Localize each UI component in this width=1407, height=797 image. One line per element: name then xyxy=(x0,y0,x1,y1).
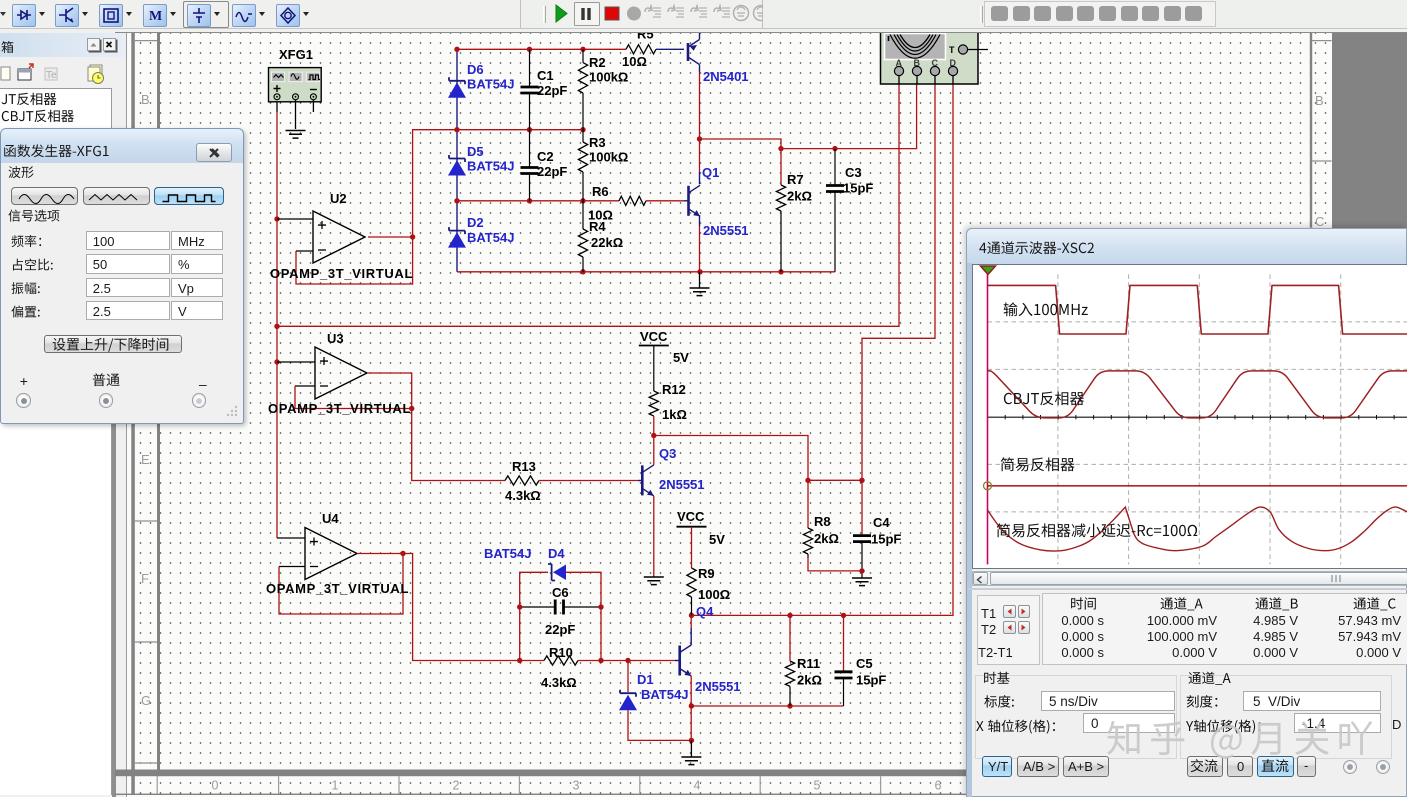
svg-text:OPAMP_3T_VIRTUAL: OPAMP_3T_VIRTUAL xyxy=(270,266,413,281)
svg-text:0: 0 xyxy=(212,779,219,793)
power VCC 5V (mid) xyxy=(677,526,707,528)
svg-text:10Ω: 10Ω xyxy=(622,54,647,69)
svg-text:5V: 5V xyxy=(673,350,689,365)
resistor R2 100k xyxy=(582,49,584,62)
diode D6 BAT54J xyxy=(449,77,465,84)
resistor R9 100 xyxy=(691,527,693,568)
wire: R10 vertical links xyxy=(519,607,521,661)
svg-text:U3: U3 xyxy=(327,331,344,346)
svg-text:R5: R5 xyxy=(637,27,654,42)
power VCC 5V (top) xyxy=(639,345,669,347)
resistor R7 2k xyxy=(780,149,782,185)
svg-text:XFG1: XFG1 xyxy=(279,47,313,62)
transistor Q4 2N5551 xyxy=(678,646,681,676)
wire: Q4 emitter node to R11/C5 bottom xyxy=(691,705,843,707)
svg-text:D: D xyxy=(950,58,957,68)
svg-text:R13: R13 xyxy=(512,459,536,474)
svg-text:15pF: 15pF xyxy=(843,181,873,196)
node: Q3 collector xyxy=(651,433,656,438)
wire: row3 bottom net xyxy=(457,271,835,273)
svg-text:4.3kΩ: 4.3kΩ xyxy=(541,675,577,690)
node: collector net y615 xyxy=(689,613,694,618)
wire: row2 net to R6 xyxy=(457,200,619,202)
wire: XFG1 minus stub xyxy=(312,100,314,112)
svg-text:BAT54J: BAT54J xyxy=(484,546,531,561)
svg-text:100kΩ: 100kΩ xyxy=(589,150,628,165)
svg-text:15pF: 15pF xyxy=(856,673,886,688)
ground (Q4/D1) xyxy=(690,740,692,757)
svg-text:5V: 5V xyxy=(709,532,725,547)
wire: XFG1 common to ground xyxy=(295,100,297,129)
svg-text:R3: R3 xyxy=(589,135,606,150)
resistor R3 100k xyxy=(582,130,584,142)
capacitor C2 22pF xyxy=(529,130,531,168)
capacitor C5 15pF xyxy=(843,615,845,670)
wire: XFG1 plus output vertical net to opamp inputs xyxy=(276,100,278,112)
svg-text:2kΩ: 2kΩ xyxy=(814,531,839,546)
svg-text:R11: R11 xyxy=(797,656,820,671)
svg-text:BAT54J: BAT54J xyxy=(641,687,688,702)
svg-text:Q4: Q4 xyxy=(696,604,714,619)
resistor R4 22k xyxy=(582,201,584,229)
svg-text:2kΩ: 2kΩ xyxy=(787,189,812,204)
node: Q1 collector xyxy=(697,136,702,141)
svg-text:OPAMP_3T_VIRTUAL: OPAMP_3T_VIRTUAL xyxy=(266,581,409,596)
svg-text:3: 3 xyxy=(573,779,580,793)
svg-text:U4: U4 xyxy=(322,511,339,526)
capacitor C4 15pF xyxy=(861,480,863,534)
resistor R6 10 xyxy=(619,196,646,205)
svg-text:22pF: 22pF xyxy=(537,164,567,179)
diode D1 BAT54J xyxy=(627,661,629,693)
svg-text:C6: C6 xyxy=(552,585,569,600)
svg-text:R6: R6 xyxy=(592,184,609,199)
svg-text:BAT54J: BAT54J xyxy=(467,230,514,245)
svg-text:15pF: 15pF xyxy=(871,532,901,547)
transistor Q5 2N5401 PNP top xyxy=(687,43,690,61)
svg-text:22pF: 22pF xyxy=(537,83,567,98)
ground (Q1 emitter) xyxy=(699,272,701,288)
svg-text:C3: C3 xyxy=(845,165,862,180)
wire: channel C probe riser xyxy=(862,84,935,480)
svg-text:2N5401: 2N5401 xyxy=(703,69,749,84)
diode D5 BAT54J xyxy=(449,155,465,162)
wire: channel D probe riser xyxy=(692,84,954,615)
op-amp U4 OPAMP_3T_VIRTUAL xyxy=(305,528,357,580)
wire: top row0 net xyxy=(457,48,626,50)
svg-text:E: E xyxy=(141,452,150,467)
node: diode column junctions xyxy=(454,47,459,52)
function generator XFG1 icon xyxy=(269,68,322,102)
svg-text:B: B xyxy=(141,92,150,107)
node: U2 output junction xyxy=(410,234,415,239)
resistor R13 4.3k xyxy=(505,476,539,485)
svg-text:T: T xyxy=(949,45,955,55)
svg-text:B: B xyxy=(914,58,921,68)
sheet row letters xyxy=(141,92,1324,708)
sheet column numbers xyxy=(212,779,942,793)
wire: U2 feedback loop xyxy=(296,250,313,252)
capacitor C1 22pF xyxy=(529,49,531,87)
svg-text:22pF: 22pF xyxy=(545,622,575,637)
svg-text:VCC: VCC xyxy=(677,509,705,524)
sheet border bars xyxy=(131,33,135,796)
svg-text:C2: C2 xyxy=(537,149,554,164)
wire: channel A probe line xyxy=(277,84,899,326)
svg-text:R2: R2 xyxy=(589,55,606,70)
svg-text:C: C xyxy=(932,58,939,68)
wire: Q3 collector to R8 step xyxy=(654,436,862,481)
svg-text:2N5551: 2N5551 xyxy=(703,223,749,238)
svg-text:100Ω: 100Ω xyxy=(698,587,730,602)
resistor R12 1k xyxy=(653,346,655,392)
svg-text:BAT54J: BAT54J xyxy=(467,159,514,174)
svg-text:2N5551: 2N5551 xyxy=(659,477,705,492)
svg-text:1: 1 xyxy=(332,779,339,793)
svg-text:1kΩ: 1kΩ xyxy=(662,407,687,422)
svg-text:C5: C5 xyxy=(856,656,873,671)
svg-text:R7: R7 xyxy=(787,172,804,187)
svg-text:5: 5 xyxy=(814,779,821,793)
ground (C4) xyxy=(852,578,872,586)
svg-text:10Ω: 10Ω xyxy=(588,208,613,223)
svg-text:D1: D1 xyxy=(637,672,654,687)
svg-text:VCC: VCC xyxy=(640,329,668,344)
svg-text:C4: C4 xyxy=(873,515,890,530)
resistor R5 10 (top, clipped) xyxy=(626,45,656,54)
svg-text:A: A xyxy=(896,58,903,68)
svg-text:D5: D5 xyxy=(467,144,484,159)
ground (Q3 emitter) xyxy=(644,577,664,585)
svg-text:C1: C1 xyxy=(537,68,554,83)
transistor Q1 2N5551 xyxy=(687,186,690,216)
svg-text:D2: D2 xyxy=(467,215,484,230)
svg-text:R9: R9 xyxy=(698,566,715,581)
resistor R11 2k xyxy=(789,615,791,661)
capacitor C3 15pF xyxy=(834,149,836,185)
svg-text:B: B xyxy=(1315,93,1324,108)
svg-text:C: C xyxy=(1315,214,1324,229)
diode D2 BAT54J xyxy=(449,227,465,234)
svg-text:Q1: Q1 xyxy=(702,165,719,180)
svg-text:D6: D6 xyxy=(467,62,484,77)
svg-text:2kΩ: 2kΩ xyxy=(797,673,822,688)
svg-text:2N5551: 2N5551 xyxy=(695,679,741,694)
svg-text:R8: R8 xyxy=(814,514,831,529)
svg-text:BAT54J: BAT54J xyxy=(467,77,514,92)
svg-text:Q3: Q3 xyxy=(659,446,676,461)
diode D4 BAT54J horizontal xyxy=(520,572,548,607)
wire: U2 +input xyxy=(277,218,313,220)
capacitor C6 22pF horizontal xyxy=(520,606,555,608)
svg-text:2: 2 xyxy=(453,779,460,793)
svg-text:OPAMP_3T_VIRTUAL: OPAMP_3T_VIRTUAL xyxy=(268,401,411,416)
oscilloscope XSC2 icon xyxy=(881,30,979,84)
wire: diode chain column xyxy=(456,49,458,271)
wire: collector node to R7/C3 and channel B riser xyxy=(700,84,917,149)
svg-text:100kΩ: 100kΩ xyxy=(589,70,628,85)
svg-text:4: 4 xyxy=(694,779,701,793)
resistor R10 4.3k xyxy=(544,656,578,665)
node: A-line taps xyxy=(274,324,279,329)
svg-text:F: F xyxy=(141,571,149,586)
svg-text:D4: D4 xyxy=(548,546,565,561)
svg-text:22kΩ: 22kΩ xyxy=(591,235,623,250)
transistor Q3 2N5551 xyxy=(641,465,644,495)
wire: U2 output riser to diode row1 xyxy=(368,130,583,237)
op-amp U2 OPAMP_3T_VIRTUAL xyxy=(313,211,365,263)
svg-text:6: 6 xyxy=(935,779,942,793)
svg-text:R12: R12 xyxy=(662,382,686,397)
svg-text:4.3kΩ: 4.3kΩ xyxy=(505,488,541,503)
resistor R8 2k xyxy=(807,480,809,528)
svg-text:G: G xyxy=(141,693,151,708)
svg-text:R10: R10 xyxy=(549,645,573,660)
svg-text:U2: U2 xyxy=(330,191,347,206)
op-amp U3 OPAMP_3T_VIRTUAL xyxy=(315,347,367,399)
